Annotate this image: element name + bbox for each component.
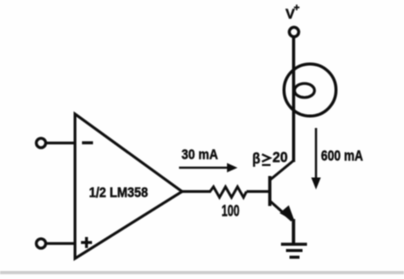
transistor Q1 collector: [271, 161, 294, 180]
op-amp U1 triangle: [75, 114, 182, 259]
annotation arrow: 600 mA current direction: [311, 128, 321, 190]
transistor Q1 emitter with arrow: [271, 202, 295, 222]
input terminal (non-inverting): [36, 239, 45, 248]
resistor R1 (100) zigzag: [210, 187, 247, 198]
minus sign (inverting pin): [82, 141, 93, 144]
wire: op-amp output to resistor: [182, 190, 211, 193]
svg-text:600 mA: 600 mA: [321, 149, 363, 165]
svg-text:30 mA: 30 mA: [182, 146, 219, 162]
transistor Q1 base bar: [268, 176, 271, 206]
svg-text:1/2 LM358: 1/2 LM358: [89, 185, 148, 200]
wire: collector up through lamp to V+: [292, 37, 295, 162]
ground symbol: [281, 244, 307, 257]
V+ terminal: [289, 27, 298, 36]
wire: emitter down to ground: [292, 219, 295, 243]
lamp DS1: envelope circle: [284, 64, 336, 116]
lamp DS1: filament loop: [295, 84, 315, 98]
wire: resistor to transistor base: [247, 190, 270, 193]
svg-text:100: 100: [222, 203, 240, 220]
wire: inverting input stub: [46, 142, 76, 145]
plus sign (non-inverting pin): [81, 237, 92, 248]
svg-text:β: β: [252, 151, 260, 167]
wire: non-inverting input stub: [46, 242, 76, 245]
svg-text:20: 20: [273, 149, 288, 166]
svg-text:+: +: [294, 3, 300, 14]
bottom rule (scan artifact band): [0, 271, 404, 274]
input terminal (inverting): [36, 138, 45, 147]
annotation arrow: 30 mA current direction: [179, 163, 238, 172]
